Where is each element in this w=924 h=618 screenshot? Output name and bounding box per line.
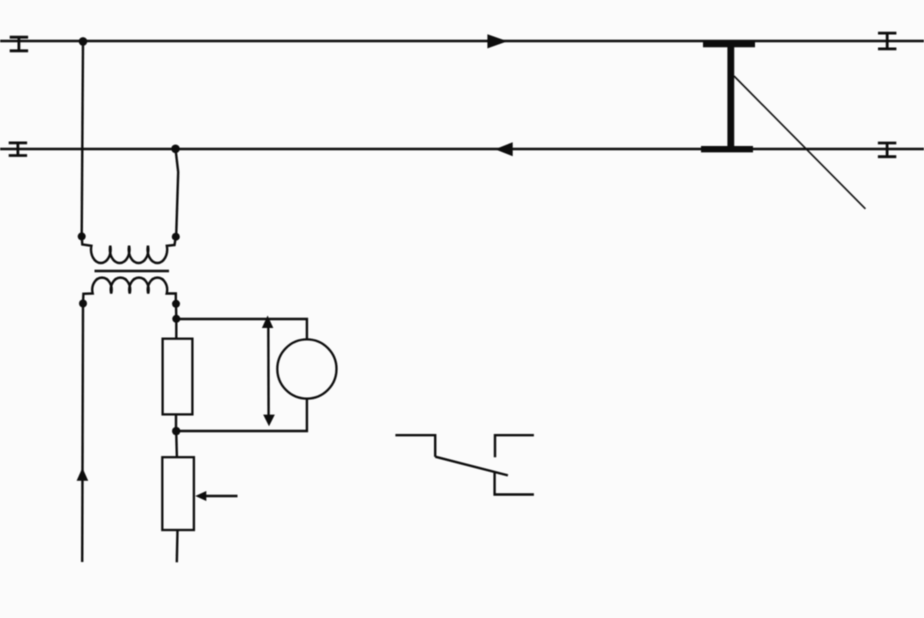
transformer T1 core: [95, 270, 170, 273]
wire bottom junction to resistor R2: [175, 431, 178, 457]
node on bottom rail: [171, 145, 180, 154]
arrow up on return wire: [77, 468, 89, 481]
transformer T1 primary winding: [82, 236, 176, 263]
insulated joint right top: [878, 33, 896, 49]
insulated joint left bottom: [9, 143, 27, 156]
wire top branch to relay: [176, 319, 307, 339]
resistor R1: [163, 339, 193, 415]
voltage arrow shaft: [267, 324, 270, 417]
wire secondary left return down: [81, 304, 84, 563]
relay coil A: [277, 339, 336, 398]
switch blade: [435, 457, 508, 476]
wire bottom rail: [0, 148, 924, 151]
node branch junction: [172, 315, 180, 323]
insulated joint left top: [10, 37, 28, 51]
arrow current direction top rail: [487, 34, 507, 48]
wire resistor R2 tail: [176, 530, 179, 562]
node transformer primary right terminal: [172, 233, 180, 241]
switch contact upper: [495, 435, 534, 457]
node transformer secondary right terminal: [172, 300, 180, 308]
adjustment arrow head: [195, 491, 206, 501]
wire resistor R1 to bottom node: [175, 414, 177, 431]
wire relay bottom to bottom junction: [176, 399, 307, 431]
wire bottom rail to transformer primary right: [176, 149, 179, 236]
arrow current direction bottom rail: [495, 142, 513, 156]
voltage arrow head down: [263, 415, 275, 427]
wire top rail: [0, 40, 924, 43]
node transformer secondary left terminal: [79, 300, 87, 308]
node transformer primary left terminal: [78, 232, 86, 240]
wheelset axle: [727, 44, 734, 149]
adjustment arrow shaft: [204, 495, 238, 497]
switch contact common: [395, 435, 435, 457]
voltage arrow head up: [262, 316, 273, 329]
transformer T1 secondary winding: [83, 278, 176, 304]
node bottom junction: [172, 427, 180, 435]
wire branch node to resistor R1: [175, 319, 177, 339]
wire secondary right down to branch node: [175, 304, 178, 319]
insulated joint right bottom: [878, 143, 896, 157]
node on top rail: [79, 37, 88, 46]
wheelset top wheel: [703, 41, 755, 47]
wire top rail to transformer primary left: [82, 41, 83, 236]
leader line from wheelset: [734, 76, 865, 209]
wheelset bottom wheel: [701, 146, 753, 152]
resistor R2 adjustable: [162, 457, 194, 530]
switch contact lower: [495, 473, 534, 495]
